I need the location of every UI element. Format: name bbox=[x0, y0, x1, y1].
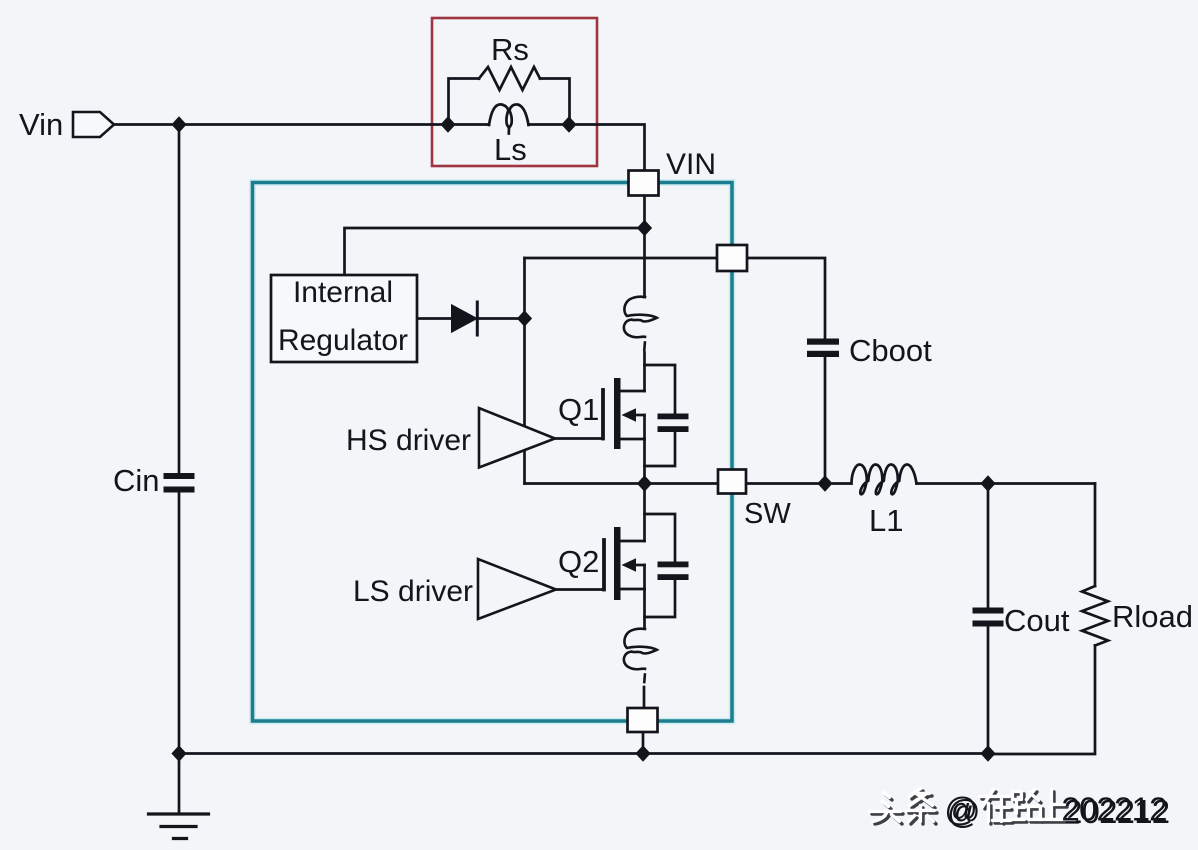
bootstrap rail horizontal to BOOT pin bbox=[525, 257, 718, 260]
wire LS driver output to Q2 gate bbox=[556, 588, 604, 591]
ground stem bbox=[178, 754, 181, 815]
wire Rs branch left riser bbox=[449, 79, 480, 125]
svg-text:Q1: Q1 bbox=[558, 392, 599, 427]
Q2 body-source vertical bbox=[643, 565, 646, 589]
svg-text:Vin: Vin bbox=[19, 107, 63, 142]
capacitor Cout plates bbox=[973, 608, 1004, 614]
ground symbol bbox=[149, 814, 209, 839]
diode D1 bbox=[452, 306, 476, 332]
IC boundary box (teal) bbox=[253, 183, 733, 722]
junction dot Rs/Ls left bbox=[440, 116, 455, 133]
Q1 drain stub bbox=[621, 390, 645, 393]
svg-text:Rs: Rs bbox=[491, 32, 529, 67]
wire BOOT pin to Cboot bbox=[747, 258, 825, 338]
Q2 drain stub bbox=[621, 540, 645, 543]
pin PGND square bbox=[628, 708, 658, 732]
junction dot diode output bbox=[517, 310, 532, 327]
watermark shadow layer bbox=[872, 791, 1169, 830]
Vin connector flag bbox=[73, 112, 114, 137]
svg-text:Regulator: Regulator bbox=[278, 324, 408, 357]
junction dot Cout bottom bbox=[980, 745, 995, 762]
transistor Q2 channel bar bbox=[614, 527, 621, 600]
wire Rload top lead bbox=[1094, 484, 1097, 587]
svg-text:VIN: VIN bbox=[666, 148, 716, 181]
Q1 gate bar bbox=[601, 390, 605, 439]
junction dot ground PGND bbox=[635, 745, 650, 762]
Q2 drain from SW bbox=[643, 484, 646, 542]
bootstrap rail vertical (behind HS driver) bbox=[523, 258, 526, 484]
pin VIN square bbox=[629, 171, 659, 196]
junction dot Cout top bbox=[980, 475, 995, 492]
wire Ls right lead bbox=[529, 123, 570, 126]
junction dot Cboot bottom bbox=[817, 475, 832, 492]
junction dot VIN internal bbox=[637, 220, 652, 237]
wire HS driver output to Q1 gate bbox=[555, 437, 603, 440]
Q2 body stub bbox=[635, 564, 645, 567]
parasitic inductor below Q2 bbox=[624, 629, 657, 682]
svg-text:Cboot: Cboot bbox=[849, 333, 932, 368]
Q2 output cap branch bbox=[645, 514, 676, 561]
wire Cin top lead bbox=[178, 125, 181, 473]
wire PGND pin to ground rail bbox=[642, 732, 645, 754]
wire top internal rail to regulator bbox=[345, 228, 645, 275]
svg-text:HS driver: HS driver bbox=[346, 424, 471, 457]
junction dot ground left bbox=[171, 745, 186, 762]
resistor Rs bbox=[479, 67, 540, 90]
LS driver triangle bbox=[478, 559, 556, 619]
transistor Q2 body arrow bbox=[622, 558, 637, 571]
red highlight box around Rs/Ls bbox=[432, 18, 597, 166]
junction dot Vin/Cin bbox=[171, 116, 186, 133]
svg-text:LS driver: LS driver bbox=[353, 575, 473, 608]
wire Rs branch right riser bbox=[540, 79, 570, 125]
pin BOOT square bbox=[717, 245, 747, 271]
SW rail bbox=[525, 482, 852, 485]
svg-text:Cout: Cout bbox=[1004, 603, 1070, 638]
wire inductor to Q1 drain bbox=[643, 353, 646, 392]
wire Q2 source down bbox=[643, 589, 646, 628]
pin SW square bbox=[718, 470, 746, 494]
wire Cout bottom lead bbox=[987, 627, 990, 754]
capacitor Cboot plates bbox=[807, 339, 839, 345]
diode D1 cathode bar bbox=[476, 302, 479, 335]
junction dot SW node bbox=[637, 475, 652, 492]
wire Ls left lead bbox=[448, 123, 489, 126]
wire diode cathode to junction bbox=[477, 317, 525, 320]
transistor Q1 channel bar bbox=[614, 378, 621, 449]
wire Vin to Rs/Ls left node bbox=[114, 123, 448, 126]
capacitor Cin plates bbox=[164, 473, 195, 479]
wire L1 to Rload corner bbox=[917, 482, 1096, 485]
wire Cin bottom lead bbox=[178, 493, 181, 754]
wire Cout top lead bbox=[987, 484, 990, 608]
Q1 body-source vertical bbox=[643, 415, 646, 439]
wire Rload bottom lead bbox=[988, 646, 1095, 755]
svg-text:Internal: Internal bbox=[293, 276, 393, 309]
wire diode junction bbox=[417, 317, 452, 320]
capacitor Q1 (output cap) plates bbox=[658, 414, 689, 420]
svg-text:SW: SW bbox=[744, 498, 791, 530]
svg-text:Ls: Ls bbox=[494, 132, 527, 167]
wire Q1 source to SW rail bbox=[643, 439, 646, 483]
Q2 source stub bbox=[621, 588, 645, 591]
inductor Ls bbox=[489, 104, 529, 127]
junction dot Rs/Ls right bbox=[561, 116, 576, 133]
svg-text:Q2: Q2 bbox=[558, 544, 599, 579]
svg-text:Rload: Rload bbox=[1112, 599, 1193, 634]
svg-text:L1: L1 bbox=[869, 503, 903, 538]
Q2 gate bar bbox=[602, 540, 606, 590]
wire VIN pin to internal junction bbox=[643, 196, 646, 228]
Internal Regulator box bbox=[271, 275, 417, 362]
Q1 body stub bbox=[635, 414, 645, 417]
transistor Q1 body arrow bbox=[622, 408, 637, 421]
wire to PGND pin bbox=[643, 687, 646, 708]
Q1 source stub bbox=[621, 438, 645, 441]
wire internal junction down to parasitic inductor bbox=[643, 228, 646, 297]
inductor Ls tail bbox=[507, 128, 510, 134]
parasitic inductor above Q1 bbox=[624, 297, 657, 350]
wire Cboot to SW node bbox=[824, 357, 827, 484]
IC boundary box (teal) halo bbox=[253, 183, 733, 722]
svg-text:Cin: Cin bbox=[113, 463, 160, 498]
capacitor Q2 (output cap) plates bbox=[658, 562, 689, 568]
Q1 output cap branch bbox=[645, 365, 676, 413]
HS driver triangle bbox=[479, 408, 555, 468]
watermark highlight layer bbox=[869, 788, 1166, 827]
wire right node to VIN pin bbox=[569, 125, 645, 172]
inductor L1 bbox=[852, 465, 917, 495]
ground rail bbox=[179, 752, 988, 755]
resistor Rload bbox=[1082, 586, 1108, 646]
